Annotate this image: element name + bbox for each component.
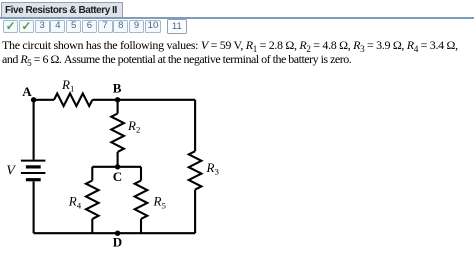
battery V plate short thick bottom [26,178,41,181]
button row [0,19,474,34]
svg-text:C: C [113,169,122,184]
resistor R5 [135,181,148,219]
svg-text:R3: R3 [206,160,220,177]
battery V plate short thick [26,165,41,168]
node D junction dot [115,231,120,236]
svg-text:B: B [113,80,122,95]
svg-text:R1: R1 [61,77,74,94]
wire: C horizontal bar [92,166,141,168]
resistor R1 [54,94,92,107]
svg-text:R5: R5 [153,194,167,211]
wire: bottom rail [34,232,196,234]
wire: C bar down to R4 [91,167,93,181]
problem text [2,38,474,66]
svg-text:V: V [6,164,16,179]
wire: R5 to bottom rail [140,219,142,233]
resistor R4 [86,181,99,219]
wire: R3 to bottom-right corner [194,190,196,234]
node B junction dot [115,97,120,102]
svg-text:R4: R4 [68,194,82,211]
blue separator line [0,17,474,19]
svg-text:R2: R2 [127,118,140,135]
svg-text:D: D [113,234,122,249]
battery V plate long top [21,160,46,162]
resistor R3 [189,151,202,189]
battery V plate long [21,172,46,174]
node A junction dot [31,97,36,102]
wire: R2 to node C [117,152,119,167]
header tab [1,2,123,17]
wire: C bar down to R5 [140,167,142,181]
wire: battery down to bottom-left corner [33,181,35,233]
node C junction dot [115,164,120,169]
wire: top-left A to R1 [34,99,54,101]
resistor R2 [111,114,124,152]
wire: right rail top down to R3 [194,100,196,151]
wire: R1 to B to top-right corner [92,99,195,101]
wire: B down to R2 [117,100,119,114]
wire: left rail A down to battery [33,100,35,160]
svg-text:A: A [22,84,32,99]
wire: R4 to bottom rail [91,219,93,233]
